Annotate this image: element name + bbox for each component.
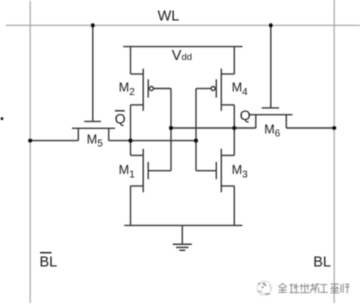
wire ground rail [124, 224, 242, 226]
wire QB output column (left inverter output) [130, 105, 132, 155]
wire Vdd rail [123, 46, 242, 48]
wire Q output column (right inverter output) [233, 105, 235, 155]
watermark text (stylized CJK strokes) [278, 283, 349, 293]
transistor M1 (NMOS, left inverter) [131, 149, 172, 226]
svg-text:M6: M6 [264, 122, 280, 139]
svg-text:BL: BL [40, 254, 58, 270]
svg-text:M2: M2 [119, 81, 135, 98]
svg-text:BL: BL [313, 254, 331, 270]
transistor M2 (PMOS, left inverter) [131, 47, 172, 111]
node BLB to M5 [28, 139, 32, 143]
ground symbol [173, 225, 192, 250]
wire BL bit line (gray rail, right) [333, 0, 335, 303]
transistor M6 (NMOS pass gate, right) [249, 25, 292, 128]
svg-text:M4: M4 [232, 81, 248, 98]
node M5 gate on WL [91, 23, 95, 27]
node QB junction [128, 139, 132, 143]
node right gate column junction [194, 139, 198, 143]
wire WL word line (gray rail) [6, 24, 360, 26]
transistor M4 (PMOS, right inverter) [196, 47, 234, 111]
transistor M5 (NMOS pass gate, left) [72, 25, 115, 140]
node M6 to BL [332, 126, 336, 130]
stray dot at left margin [1, 117, 4, 120]
transistor M3 (NMOS, right inverter) [196, 149, 234, 226]
svg-text:WL: WL [158, 8, 180, 24]
wire lower cross-couple left (BLB to M5) [30, 140, 78, 142]
svg-text:M1: M1 [119, 163, 135, 180]
node left gate column junction [169, 126, 173, 130]
svg-text:M3: M3 [232, 163, 248, 180]
svg-text:Q: Q [240, 107, 251, 123]
wire right inverter gate column [195, 89, 197, 171]
wire left inverter gate column [170, 89, 172, 171]
wire upper cross-couple (Q to left gates, to M6) [171, 127, 256, 129]
svg-text:Vdd: Vdd [172, 48, 192, 64]
svg-text:Q: Q [115, 110, 126, 126]
node Q junction [232, 126, 236, 130]
svg-text:M5: M5 [87, 132, 103, 149]
watermark logo [257, 281, 272, 296]
wire BLB bit line bar (gray rail, left) [29, 1, 31, 303]
wire lower cross-couple right (M5 to QB to right gates) [109, 140, 196, 142]
wire M6 source to BL [286, 127, 334, 129]
node M6 gate on WL [269, 23, 273, 27]
